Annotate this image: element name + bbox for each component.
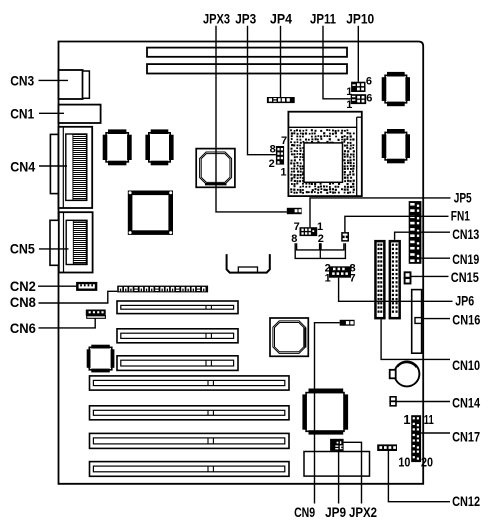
svg-text:2: 2 xyxy=(269,158,275,170)
CPU socket U (pin grid array) xyxy=(288,112,361,196)
expansion slot 6 xyxy=(90,433,290,448)
battery BT1 xyxy=(390,361,420,386)
svg-text:JP6: JP6 xyxy=(455,292,474,308)
connector CN12 (4-pin header) xyxy=(377,444,397,451)
label FN1 xyxy=(451,207,470,223)
wire CN5 leader xyxy=(39,248,69,250)
svg-text:10: 10 xyxy=(398,454,410,469)
chip U (top-left pair, right) xyxy=(145,129,173,165)
wire JPX3 leader xyxy=(216,26,287,212)
label CN17 xyxy=(452,429,480,445)
label CN14 xyxy=(452,395,480,411)
label CN16 xyxy=(452,311,480,327)
svg-text:CN17: CN17 xyxy=(452,429,480,445)
jumper JP4 xyxy=(267,97,295,103)
wire JP10 leader xyxy=(357,26,359,82)
connector CN9 target (2-pin) xyxy=(340,320,355,326)
svg-text:CN16: CN16 xyxy=(452,311,480,327)
svg-text:JP3: JP3 xyxy=(235,11,256,27)
PLCC socket chip (upper) xyxy=(196,149,235,188)
svg-text:11: 11 xyxy=(424,412,434,427)
connector CN14 (2-pin) xyxy=(390,397,396,406)
wire CN16 leader xyxy=(422,318,450,320)
jumper JPX3 target (2-pin) xyxy=(287,208,302,214)
chip U (top-left pair, left) xyxy=(103,129,132,165)
svg-text:CN4: CN4 xyxy=(10,159,35,175)
label CN15 xyxy=(451,269,479,285)
svg-text:20: 20 xyxy=(421,454,433,469)
svg-text:1: 1 xyxy=(317,221,323,233)
svg-text:JPX2: JPX2 xyxy=(349,504,377,520)
connector CN1 xyxy=(59,105,101,123)
label CN13 xyxy=(452,226,479,242)
wire CN17 leader xyxy=(421,432,450,434)
label JP9 xyxy=(325,504,346,520)
label CN5 xyxy=(10,240,35,256)
wire CN6 leader xyxy=(39,318,96,328)
svg-text:1: 1 xyxy=(403,412,410,427)
svg-text:CN1: CN1 xyxy=(10,106,34,122)
QFP chip U (bottom) xyxy=(302,389,348,435)
expansion slot 3 xyxy=(117,356,238,371)
SIMM memory slot bank (lower bar) xyxy=(147,64,347,73)
jumper JP6 xyxy=(325,263,356,285)
jumper JP9 xyxy=(330,439,344,451)
jumper JP10 xyxy=(346,76,372,99)
chip U (top-right column, lower) xyxy=(382,129,410,163)
label JP6 xyxy=(455,292,474,308)
label JP11 xyxy=(310,10,336,26)
label JP5 xyxy=(454,189,472,205)
svg-text:7: 7 xyxy=(281,135,287,147)
label CN1 xyxy=(10,106,34,122)
label JP4 xyxy=(270,11,292,27)
wire CN13 leader xyxy=(395,232,450,240)
wire CN4 leader xyxy=(39,165,67,167)
svg-text:6: 6 xyxy=(366,92,372,104)
connector CN16 xyxy=(412,290,422,354)
svg-text:CN8: CN8 xyxy=(10,294,36,310)
svg-text:CN19: CN19 xyxy=(452,251,479,267)
svg-text:CN6: CN6 xyxy=(10,320,36,336)
label CN9 xyxy=(294,504,315,520)
wire JP3 leader xyxy=(248,26,276,155)
svg-text:FN1: FN1 xyxy=(451,207,470,223)
label CN2 xyxy=(10,278,36,294)
svg-text:1: 1 xyxy=(280,166,286,178)
label CN12 xyxy=(452,493,480,509)
wire CN14 leader xyxy=(396,401,450,403)
label JP10 xyxy=(346,10,374,26)
svg-text:JP10: JP10 xyxy=(346,10,374,26)
svg-text:JP11: JP11 xyxy=(310,10,336,26)
connector CN3 (keyboard) xyxy=(59,70,90,99)
svg-text:CN3: CN3 xyxy=(10,73,34,89)
expansion slot 1 xyxy=(117,301,238,314)
wire CN3 leader xyxy=(39,79,69,81)
svg-text:8: 8 xyxy=(270,143,276,155)
connector CN13 (pin array header) xyxy=(389,240,401,320)
wire JPX2 leader xyxy=(344,442,362,503)
svg-text:CN13: CN13 xyxy=(452,226,479,242)
label JPX2 xyxy=(349,504,377,520)
svg-text:CN12: CN12 xyxy=(452,493,480,509)
label CN8 xyxy=(10,294,36,310)
label JPX3 xyxy=(203,11,230,27)
chip U (top-right column, upper) xyxy=(382,72,410,106)
svg-text:CN14: CN14 xyxy=(452,395,480,411)
wire JP11 leader xyxy=(323,26,351,99)
SIMM memory slot bank (upper bar) xyxy=(147,48,347,57)
connector CN6 xyxy=(86,310,106,319)
svg-text:CN9: CN9 xyxy=(294,504,315,520)
connector CN9 area rectangle xyxy=(304,452,370,477)
wire brackets below JP5/FN1 xyxy=(295,243,345,258)
svg-text:CN15: CN15 xyxy=(451,269,479,285)
label CN4 xyxy=(10,159,35,175)
connector CN4 (port with pin hatch) xyxy=(50,127,92,208)
wire JP9 leader xyxy=(338,451,340,504)
PLCC socket chip (lower) xyxy=(270,318,308,356)
wire JP4 leader xyxy=(280,26,282,97)
label CN10 xyxy=(452,357,480,373)
wire CN9 leader xyxy=(315,323,340,504)
svg-text:CN10: CN10 xyxy=(452,357,480,373)
connector CN15 (2-pin) xyxy=(405,272,411,283)
svg-text:JPX3: JPX3 xyxy=(203,11,230,27)
connector CN2 xyxy=(76,282,97,291)
jumper JP5 xyxy=(291,221,324,245)
svg-text:JP5: JP5 xyxy=(454,189,472,205)
jumper block JP1/JP2 (JP3 target) xyxy=(269,135,288,179)
label CN6 xyxy=(10,320,36,336)
wire CN8 leader xyxy=(39,291,118,303)
connector CN8 (pin strip) xyxy=(117,286,208,293)
jumper JP11 xyxy=(346,92,372,111)
chip U (left of slot row) xyxy=(87,345,115,373)
svg-text:6: 6 xyxy=(366,76,372,88)
connector CN10 (pin array header) xyxy=(374,240,385,320)
wire JP6 leader xyxy=(339,278,453,302)
large square chip U (thick border) xyxy=(129,191,173,234)
svg-text:1: 1 xyxy=(325,273,331,285)
label CN19 xyxy=(452,251,479,267)
svg-text:CN2: CN2 xyxy=(10,278,36,294)
wire CN15 leader xyxy=(411,275,449,277)
fan connector FN1 xyxy=(341,232,349,242)
wire CN1 leader xyxy=(39,112,64,114)
connector CN19 (power pin strip) xyxy=(409,201,422,264)
wire CN19 leader xyxy=(421,257,450,259)
svg-text:1: 1 xyxy=(346,99,352,111)
wire JP5 leader xyxy=(310,198,451,227)
expansion slot 2 xyxy=(117,329,238,343)
wire CN2 leader xyxy=(38,285,76,287)
svg-text:8: 8 xyxy=(291,233,297,245)
expansion slot 7 xyxy=(90,462,290,477)
svg-text:JP9: JP9 xyxy=(325,504,346,520)
svg-text:2: 2 xyxy=(318,233,324,245)
expansion slot 5 xyxy=(90,406,290,420)
label JP3 xyxy=(235,11,256,27)
svg-text:7: 7 xyxy=(294,221,300,233)
svg-text:7: 7 xyxy=(350,273,356,285)
svg-text:JP4: JP4 xyxy=(270,11,292,27)
motherboard outline xyxy=(59,42,424,484)
label CN3 xyxy=(10,73,34,89)
wire CN10 leader xyxy=(381,319,450,359)
svg-text:CN5: CN5 xyxy=(10,240,35,256)
wire CN12 leader xyxy=(388,451,450,502)
connector CN5 (port with pin hatch) xyxy=(50,212,93,272)
connector CN17 (vertical pin strip) xyxy=(398,412,433,470)
keyboard DIN bracket outline xyxy=(227,254,270,273)
wire FN1 leader xyxy=(345,216,449,232)
expansion slot 4 xyxy=(90,376,290,390)
